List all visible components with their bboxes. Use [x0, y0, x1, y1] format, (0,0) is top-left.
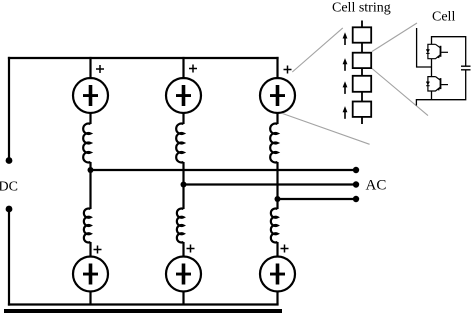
wire: AC phase c	[278, 198, 357, 200]
wire: leg C upper stub	[276, 58, 278, 78]
source V6 lower leg C	[260, 257, 295, 292]
inductor L3 upper arm leg C	[270, 124, 277, 163]
node: AC terminal c	[353, 196, 359, 202]
wire: V1 to L1	[89, 113, 91, 124]
callout line from V3 bottom to cell string bottom	[283, 114, 370, 145]
svg-text:Cell: Cell	[432, 10, 455, 25]
source V5 lower leg B	[166, 257, 201, 292]
node: DC negative terminal	[6, 206, 13, 213]
cell 3 box	[353, 76, 372, 92]
wire: L2 to node b	[182, 162, 184, 185]
inductor L5 lower arm leg B	[177, 209, 184, 243]
wire: V6 to bottom bus	[276, 292, 278, 305]
wire: cell 2 to cell 3	[361, 68, 363, 76]
wire: AC phase b	[184, 183, 357, 185]
node b junction	[181, 182, 187, 188]
wire: cell detail mid lead	[431, 59, 433, 77]
source V2 upper leg B	[166, 78, 201, 113]
wire: L6 to V6	[276, 242, 278, 257]
svg-text:Cell string: Cell string	[332, 1, 391, 16]
transistor Q1 upper IGBT	[426, 44, 448, 58]
wire: leg A upper stub	[89, 58, 91, 78]
node c junction	[275, 196, 281, 202]
wire: leg B upper stub	[182, 58, 184, 78]
wire: L3 to node c	[276, 162, 278, 199]
source V4 lower leg A	[73, 257, 108, 292]
wire: L5 to V5	[182, 242, 184, 257]
wire: node c to L6	[276, 199, 278, 209]
arrow of cell 4	[343, 106, 348, 119]
arrow of cell 1	[343, 32, 348, 45]
label + of V5	[187, 245, 195, 253]
arrow of cell 2	[343, 58, 348, 71]
inductor L4 lower arm leg A	[84, 209, 91, 243]
callout line from V3 plus to cell string top	[292, 28, 343, 72]
wire: cell string bottom lead	[361, 117, 363, 124]
inductor L2 upper arm leg B	[176, 124, 183, 163]
wire: bottom DC bus	[9, 303, 278, 305]
wire: cell string top lead	[361, 21, 363, 28]
wire: V3 to L3	[276, 113, 278, 124]
wire: L1 to node a	[89, 162, 91, 170]
wire: cell detail top lead	[432, 37, 466, 66]
callout line from cell 2 bottom to cell detail bottom	[372, 69, 428, 116]
wire: cell detail left input lead	[417, 28, 432, 67]
label + of V2	[189, 65, 197, 73]
label + of V4	[94, 246, 102, 254]
node a junction	[88, 167, 94, 173]
transistor Q2 lower IGBT	[426, 77, 448, 91]
wire: V5 to bottom bus	[182, 292, 184, 305]
wire: L4 to V4	[89, 242, 91, 257]
node: DC positive terminal	[6, 157, 13, 164]
label + of V6	[281, 245, 289, 253]
wire: top DC bus	[9, 57, 278, 59]
source V3 upper leg C	[260, 78, 295, 113]
wire: left DC rail upper	[8, 58, 10, 161]
callout line from cell 2 top to cell detail top	[372, 23, 417, 52]
cell 1 box	[353, 27, 372, 42]
cell 2 box	[353, 53, 372, 68]
wire: V2 to L2	[182, 113, 184, 124]
node: AC terminal a	[353, 167, 359, 173]
svg-text:AC: AC	[366, 178, 387, 194]
svg-text:DC: DC	[0, 180, 18, 195]
wire: node b to L5	[182, 185, 184, 210]
inductor L6 lower arm leg C	[271, 209, 278, 243]
label + of V3	[284, 66, 292, 74]
wire: V4 to bottom bus	[89, 292, 91, 305]
arrow of cell 3	[343, 81, 348, 94]
wire: cell 1 to cell 2	[361, 43, 363, 53]
wire: cell detail bottom lead	[416, 70, 465, 106]
source V1 upper leg A	[73, 78, 108, 113]
capacitor C1	[461, 66, 471, 70]
inductor L1 upper arm leg A	[83, 124, 90, 163]
wire: AC phase a	[91, 169, 357, 171]
wire: left DC rail lower	[8, 209, 10, 305]
label + of V1	[96, 65, 104, 73]
wire: cell 3 to cell 4	[361, 92, 363, 102]
node: AC terminal b	[353, 181, 359, 187]
border: thick bottom bar	[4, 309, 282, 313]
cell 4 box	[353, 102, 372, 117]
wire: node a to L4	[89, 170, 91, 209]
